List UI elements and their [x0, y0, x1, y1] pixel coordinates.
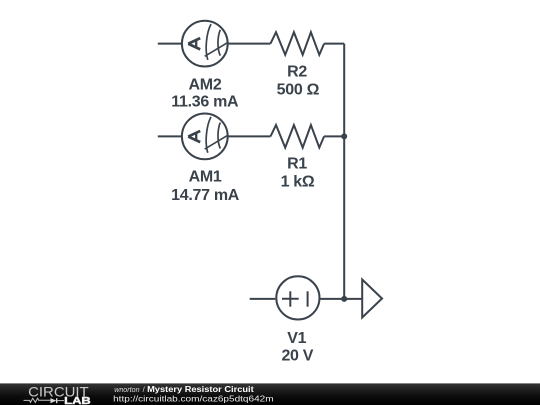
wire: AM2 to R2	[228, 43, 271, 45]
wire: right vertical bus	[343, 44, 345, 299]
wire: AM1 to R1	[228, 135, 271, 137]
svg-text:1 kΩ: 1 kΩ	[281, 174, 315, 191]
svg-text:wnorton: wnorton	[114, 385, 139, 394]
wire: R1 to vertical bus	[324, 135, 344, 137]
svg-text:LAB: LAB	[64, 396, 91, 405]
port/flag symbol	[362, 280, 382, 318]
svg-text:AM2: AM2	[189, 76, 222, 93]
wire: left lead of V1	[250, 298, 276, 300]
svg-text:20 V: 20 V	[281, 348, 313, 365]
wire: left lead of AM2	[158, 43, 182, 45]
svg-text:R1: R1	[287, 155, 307, 172]
wire: left lead of AM1	[158, 135, 182, 137]
resistor R2	[271, 32, 325, 55]
node junction at V1/bus	[341, 296, 347, 302]
svg-text:AM1: AM1	[189, 168, 222, 185]
svg-text:500 Ω: 500 Ω	[277, 81, 320, 98]
wire: V1 to port	[321, 298, 363, 300]
svg-text:11.36 mA: 11.36 mA	[171, 93, 239, 110]
wire: R2 to top-right corner	[324, 43, 344, 45]
svg-text:Mystery Resistor Circuit: Mystery Resistor Circuit	[147, 385, 254, 394]
logo resistor squiggle	[24, 398, 51, 402]
svg-text:R2: R2	[287, 64, 307, 81]
node junction at R1/bus	[341, 133, 347, 139]
svg-text:14.77 mA: 14.77 mA	[171, 187, 240, 204]
resistor R1	[271, 125, 325, 148]
voltage source V1	[276, 276, 319, 319]
ammeter AM1	[182, 113, 228, 159]
logo diode symbol	[50, 398, 56, 403]
ammeter AM2	[182, 21, 228, 67]
svg-text:V1: V1	[287, 330, 306, 347]
svg-text:http://circuitlab.com/caz6p5dt: http://circuitlab.com/caz6p5dtq642m	[113, 395, 274, 404]
